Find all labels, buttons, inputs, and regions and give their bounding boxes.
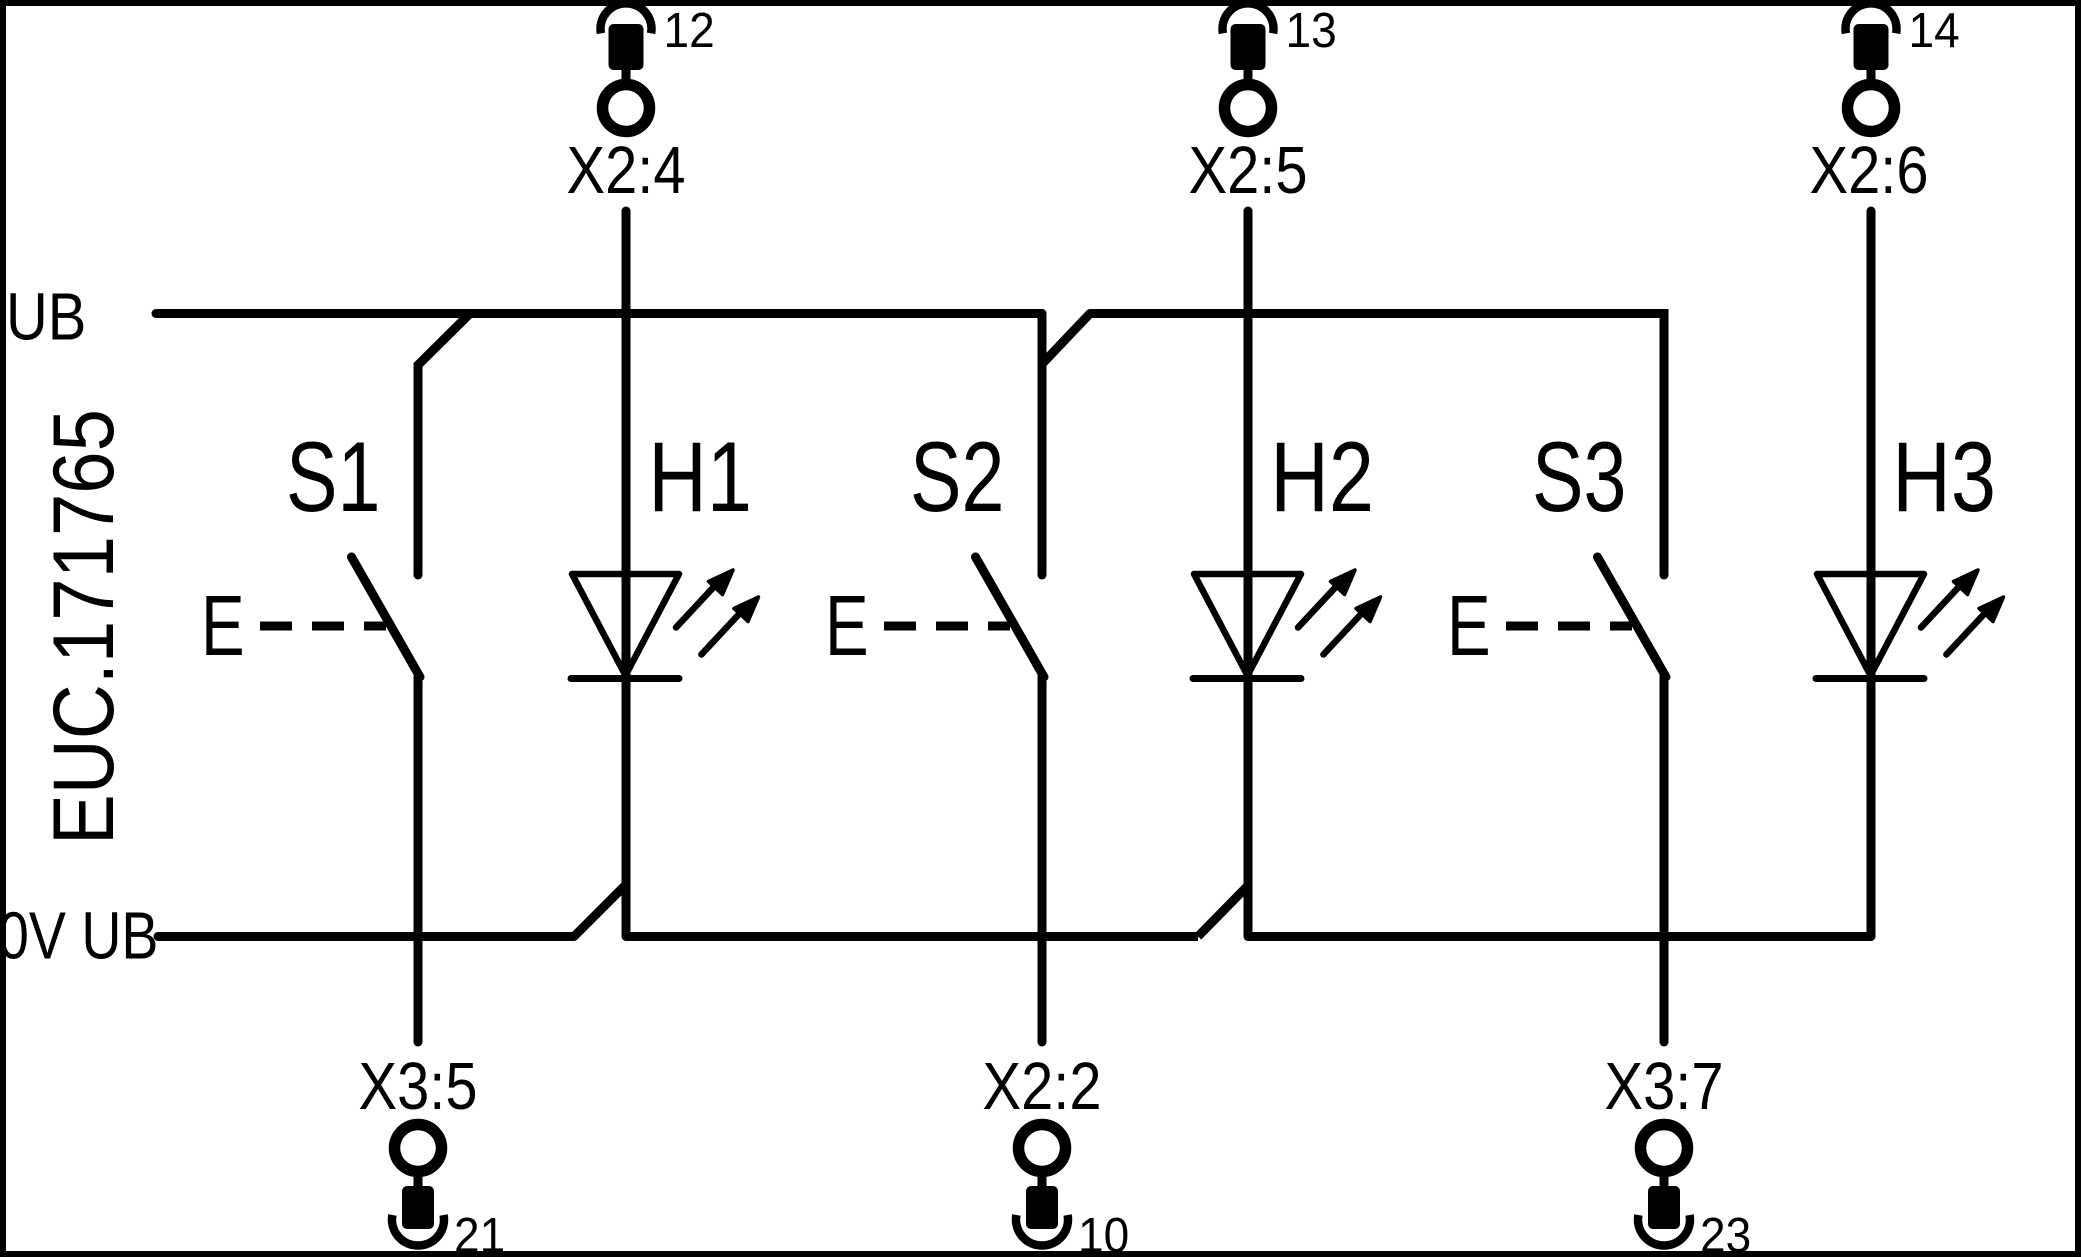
svg-text:UB: UB: [6, 281, 86, 355]
svg-text:21: 21: [454, 1209, 505, 1257]
svg-text:H1: H1: [648, 422, 752, 532]
svg-text:0V UB: 0V UB: [0, 899, 158, 973]
svg-text:S1: S1: [286, 422, 380, 532]
svg-text:13: 13: [1286, 4, 1337, 59]
svg-text:X3:7: X3:7: [1605, 1050, 1724, 1124]
svg-text:EUC.171765: EUC.171765: [36, 409, 132, 845]
svg-text:X2:2: X2:2: [983, 1050, 1102, 1124]
svg-text:X2:5: X2:5: [1189, 134, 1308, 208]
svg-text:E: E: [201, 579, 245, 674]
svg-text:X3:5: X3:5: [359, 1050, 478, 1124]
svg-text:10: 10: [1078, 1209, 1129, 1257]
svg-text:12: 12: [664, 4, 715, 59]
svg-text:E: E: [825, 579, 869, 674]
svg-text:S2: S2: [910, 422, 1004, 532]
svg-text:23: 23: [1700, 1209, 1751, 1257]
svg-text:H2: H2: [1270, 422, 1374, 532]
svg-text:X2:4: X2:4: [567, 134, 686, 208]
svg-text:X2:6: X2:6: [1810, 134, 1929, 208]
svg-text:H3: H3: [1892, 422, 1996, 532]
svg-text:E: E: [1447, 579, 1491, 674]
svg-text:14: 14: [1909, 4, 1960, 59]
svg-text:S3: S3: [1532, 422, 1626, 532]
